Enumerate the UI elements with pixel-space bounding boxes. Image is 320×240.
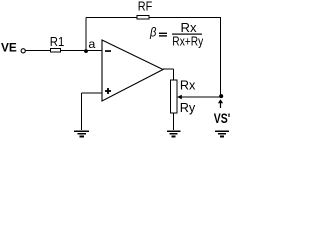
svg-text:VE: VE: [1, 41, 17, 55]
svg-text:R1: R1: [50, 34, 65, 49]
svg-text:Ry: Ry: [180, 100, 196, 115]
svg-text:Rx+Ry: Rx+Ry: [172, 33, 203, 48]
svg-text:RF: RF: [138, 0, 153, 14]
svg-text:β: β: [149, 25, 157, 40]
svg-text:a: a: [88, 37, 95, 51]
svg-text:Rx: Rx: [180, 77, 196, 92]
svg-text:VS': VS': [214, 110, 231, 126]
